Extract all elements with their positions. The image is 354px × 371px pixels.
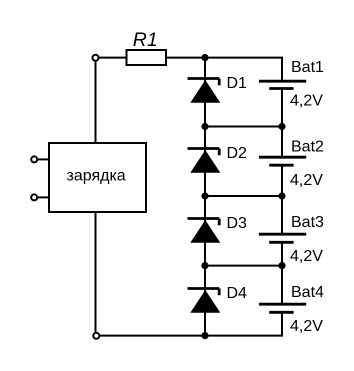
svg-text:D3: D3 (227, 215, 248, 232)
svg-text:Bat3: Bat3 (291, 214, 324, 231)
svg-text:Bat2: Bat2 (291, 138, 324, 155)
svg-text:4,2V: 4,2V (290, 172, 323, 189)
svg-text:Bat1: Bat1 (291, 59, 324, 76)
svg-text:Bat4: Bat4 (291, 284, 324, 301)
svg-text:D1: D1 (227, 75, 248, 92)
svg-text:4,2V: 4,2V (290, 318, 323, 335)
svg-text:D4: D4 (227, 285, 248, 302)
svg-text:4,2V: 4,2V (290, 92, 323, 109)
svg-text:4,2V: 4,2V (290, 248, 323, 265)
svg-text:D2: D2 (227, 145, 248, 162)
svg-text:зарядка: зарядка (67, 167, 126, 184)
svg-text:R1: R1 (133, 29, 158, 51)
